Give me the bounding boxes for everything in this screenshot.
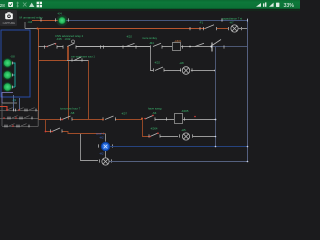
svg-text:-H2: -H2 xyxy=(99,152,104,156)
svg-text:-F1: -F1 xyxy=(199,21,204,25)
svg-text:33%: 33% xyxy=(284,3,295,9)
svg-text:CNN advanced relay 2: CNN advanced relay 2 xyxy=(55,34,84,38)
svg-text:-S8: -S8 xyxy=(70,111,75,115)
svg-text:-K4: -K4 xyxy=(57,12,62,16)
svg-text:-K02: -K02 xyxy=(126,35,132,39)
svg-text:-H5: -H5 xyxy=(181,128,186,132)
svg-text:von wostmann sour 1: von wostmann sour 1 xyxy=(71,55,95,58)
svg-text:more smiley: more smiley xyxy=(142,36,158,40)
svg-text:-G6: -G6 xyxy=(28,20,33,24)
svg-text:CAPTURE: CAPTURE xyxy=(3,21,16,25)
svg-text:-K05 -K02: -K05 -K02 xyxy=(56,37,71,41)
svg-text:-S6: -S6 xyxy=(152,111,157,115)
svg-text:-H8: -H8 xyxy=(179,61,184,65)
svg-text:M unnamed relay: M unnamed relay xyxy=(20,16,44,20)
svg-text:2:28: 2:28 xyxy=(0,3,5,8)
svg-text:-K004: -K004 xyxy=(150,127,158,131)
svg-text:-K07: -K07 xyxy=(121,112,127,116)
svg-text:-K005: -K005 xyxy=(181,109,189,113)
svg-text:have swag: have swag xyxy=(148,107,162,111)
svg-text:tomorrow hour 7: tomorrow hour 7 xyxy=(60,107,81,111)
svg-text:-K02: -K02 xyxy=(154,61,160,65)
svg-text:-H2: -H2 xyxy=(99,136,104,140)
svg-text:-M4: -M4 xyxy=(149,41,154,45)
svg-text:-Q1: -Q1 xyxy=(12,99,17,102)
svg-text:-G8: -G8 xyxy=(10,55,15,59)
svg-text:-H7: -H7 xyxy=(229,21,234,25)
